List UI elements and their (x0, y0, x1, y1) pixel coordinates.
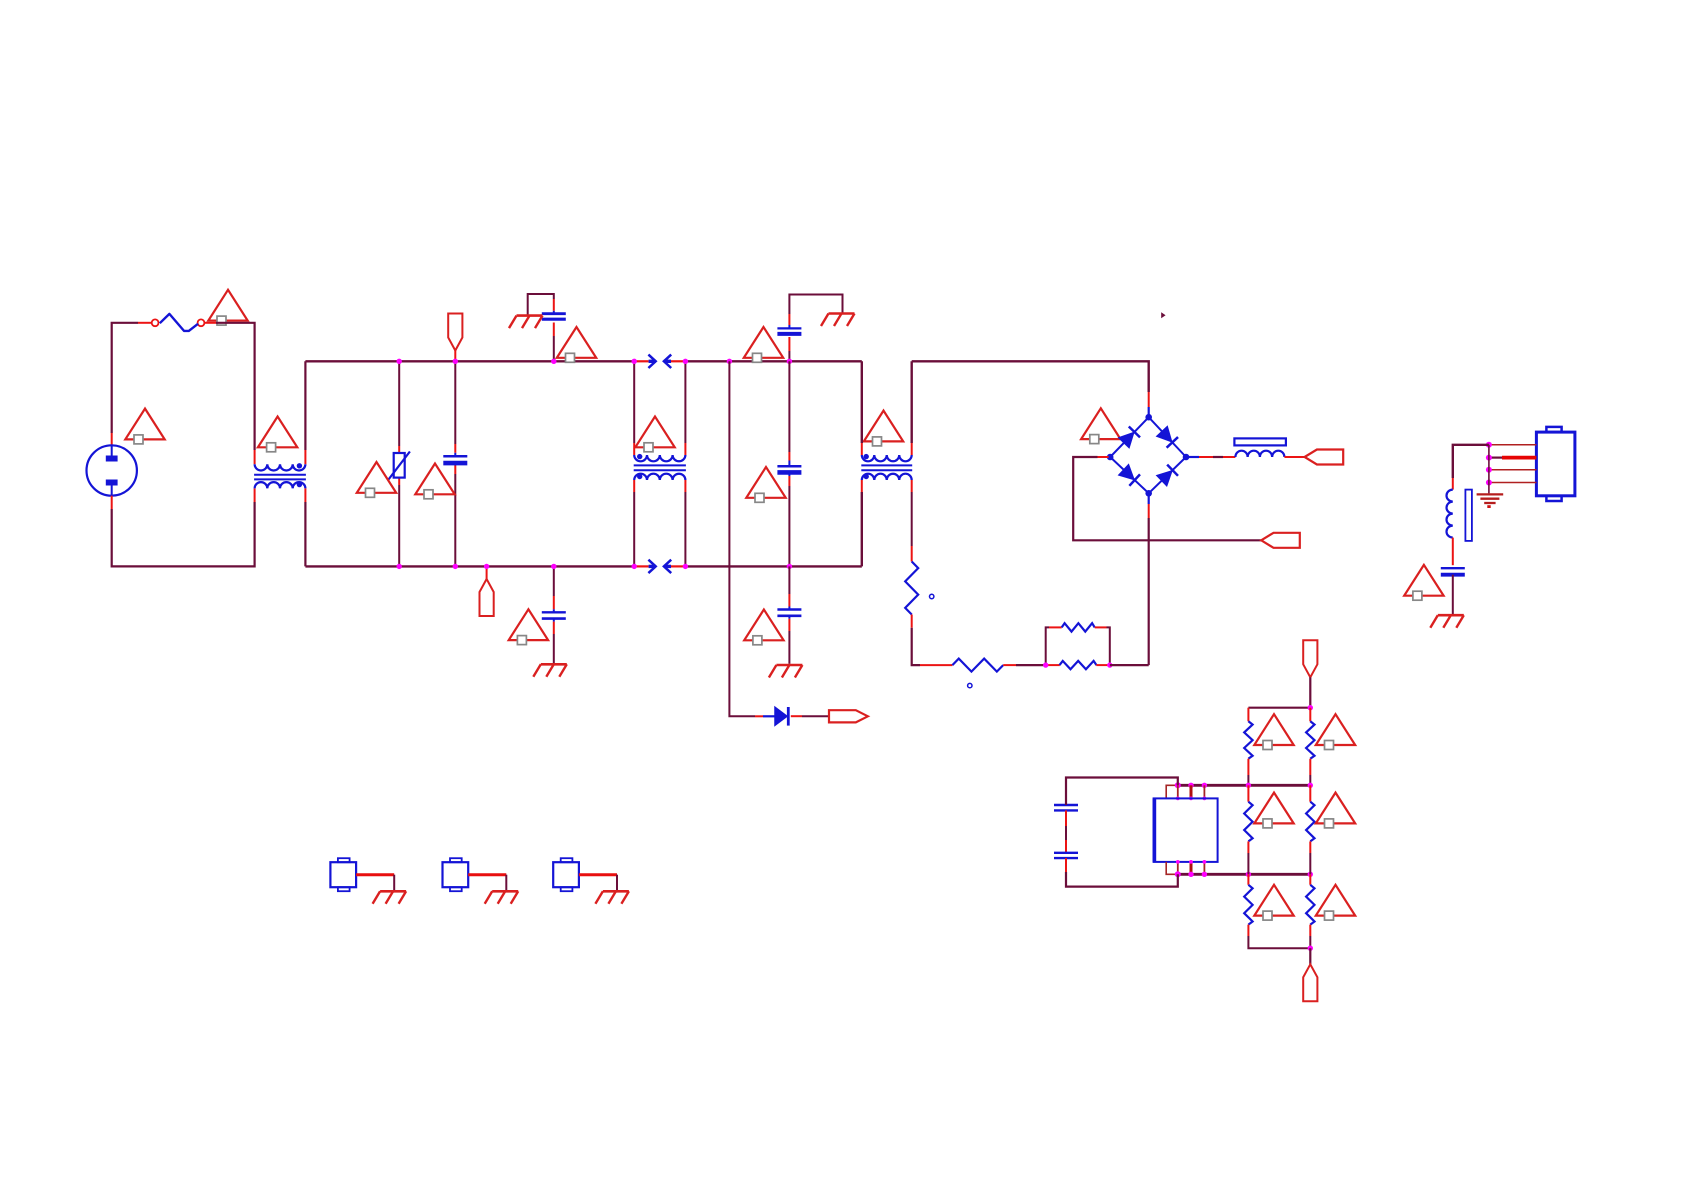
chassis ground G2 (821, 314, 855, 327)
wire L3 to capacitor C8 (1452, 538, 1454, 566)
T3 bottom-right lead (911, 480, 913, 562)
mounting hole MH2 (443, 858, 469, 891)
no-ERC marker R7 (1254, 793, 1293, 828)
port (bottle) top of divider (1303, 640, 1317, 690)
bridge vertex dots (1107, 414, 1189, 497)
no-ERC marker left of CY2 (744, 327, 783, 362)
MH1 pin to ground (356, 875, 394, 891)
fuse F1 (152, 314, 205, 331)
wire to bottom port (1309, 948, 1311, 964)
transformer T3 (861, 455, 912, 480)
junction bottom (1308, 946, 1313, 951)
earth ground G5 (1477, 494, 1504, 508)
cap loop top wire (1066, 778, 1178, 806)
MH2 pin to ground (468, 875, 506, 891)
resistor R6 (1306, 708, 1314, 786)
capacitor CY1 to chassis ground (top left) (528, 294, 566, 361)
resistor R10 (1306, 874, 1314, 948)
capacitor CY3 to ground (bottom of x=554) (542, 566, 566, 663)
capacitor C9 (upper left) (1054, 778, 1078, 811)
chassis ground G7 (373, 891, 407, 904)
wire L2 to port (1284, 456, 1304, 458)
no-ERC marker above T3 (864, 411, 903, 446)
bridge diode D3 (1156, 426, 1178, 448)
AC socket J1 (87, 445, 137, 495)
capacitor CY2 to chassis ground (top right) (777, 295, 842, 362)
no-ERC marker left of CY4 (744, 610, 783, 645)
IC U1 bottom pins (1178, 862, 1205, 874)
output top rail (912, 361, 1149, 417)
bridge diode D5 (1156, 465, 1178, 487)
top rail right segment (685, 360, 861, 362)
junction RV1 bottom (397, 564, 402, 569)
resistor R2 horizontal (920, 659, 1046, 672)
wire port to rail1 (1309, 690, 1311, 708)
no-ERC marker left of plug (125, 409, 164, 444)
top rail left segment (305, 360, 634, 362)
spark gap top (634, 355, 685, 368)
IC U1 pin entry dots top (1176, 797, 1206, 801)
T3 polarity dots (864, 454, 869, 479)
wire T1 to bottom rail (304, 488, 306, 566)
port P1 (bottle) above rail (448, 314, 462, 362)
no-ERC marker near C8 (1404, 565, 1443, 600)
capacitor C10 (lower left) (1054, 810, 1078, 872)
MH3 pin to ground (579, 875, 617, 891)
resistor R1 vertical (905, 562, 918, 615)
no-ERC marker R5 (1254, 714, 1293, 749)
R1 bottom lead (912, 615, 920, 666)
T3 top-left lead (861, 361, 863, 455)
varistor RV1 branch wire (398, 361, 400, 566)
resistor R5 (1244, 708, 1252, 786)
common-mode choke T1 (254, 464, 306, 488)
resistor R9 (1244, 874, 1310, 948)
bridge diode D4 (1118, 464, 1140, 486)
wire bridge right vertex to inductor (1186, 456, 1235, 458)
CN1 pin junction dots (1486, 442, 1492, 486)
connector CN1 body (1536, 427, 1575, 501)
CN1 pin 4 (1489, 482, 1537, 484)
resistor R8 (1306, 785, 1314, 874)
junction CY3 (551, 564, 556, 569)
wire bridge left vertex to port (1073, 457, 1261, 540)
port P2 (bottle) below rail (480, 566, 494, 616)
chassis ground G3 (533, 664, 567, 677)
capacitor CX1 branch (443, 361, 467, 566)
junction R3/R4 right (1107, 662, 1112, 667)
no-ERC marker R9 (1254, 885, 1293, 920)
CN1 pin 2 (1489, 457, 1537, 459)
no-ERC marker left of CX2 (746, 467, 785, 502)
no-ERC marker R8 (1316, 793, 1355, 828)
no-ERC marker left of CX1 (415, 464, 454, 499)
capacitor CX2 between rails (777, 361, 801, 566)
no-ERC marker above T1 (258, 417, 297, 452)
rail2 junction dots (1175, 782, 1313, 788)
stray cursor mark (1161, 312, 1165, 318)
divider rail 1 (1248, 707, 1310, 709)
capacitor CY4 to ground (bottom of x=789) (777, 566, 801, 663)
chassis ground G8 (485, 891, 519, 904)
bridge diode D2 (1118, 427, 1140, 449)
T3 bottom-left lead (861, 480, 863, 566)
no-ERC marker right of CY1 (557, 327, 596, 362)
cap loop bottom wire (1066, 872, 1178, 887)
port flag left (positive out) (1305, 450, 1344, 465)
no-ERC marker left of RV1 (357, 462, 396, 497)
T3 top-right lead (911, 361, 913, 455)
resistor R7 (1244, 785, 1252, 874)
wire bridge bottom to rail (1148, 493, 1150, 665)
crossover branch to diode (727, 359, 775, 717)
port (bottle) bottom of divider (1303, 964, 1317, 1001)
junction CX1 top (453, 359, 458, 364)
no-ERC marker left of CY3 (509, 609, 548, 644)
bridge rectifier BR1 edges (1110, 417, 1186, 493)
inductor L3 with ferrite bar (1447, 490, 1472, 541)
inductor L2 with shield bar (1234, 438, 1286, 457)
output bottom rail (1110, 664, 1149, 666)
small blue node marker 2 (968, 683, 972, 687)
junction T2 rail dots (632, 359, 689, 570)
common-mode choke T2 (634, 455, 686, 480)
rail2 left thin lead to pin1 (1166, 785, 1178, 798)
resistor R4 (parallel pair upper) (1046, 623, 1110, 665)
CN1 ground bus (1488, 445, 1490, 494)
T2 top-right lead (684, 361, 686, 455)
resistor R3 (parallel pair lower) (1046, 661, 1110, 669)
no-ERC marker above T2 (635, 417, 674, 452)
wire CN1 pin1 to inductor L3 (1453, 445, 1489, 490)
no-ERC marker near fuse (208, 290, 247, 325)
diode D1 (775, 707, 788, 726)
wire C8 to ground (1452, 575, 1454, 614)
divider rail 2 (1178, 784, 1311, 787)
wire T1 to top rail (304, 361, 306, 464)
varistor RV1 (389, 452, 410, 480)
no-ERC marker R6 (1316, 714, 1355, 749)
T2 bottom-left lead (633, 480, 635, 566)
junction RV1 top (397, 359, 402, 364)
junction rail1 (1308, 705, 1313, 710)
IC U1 top pins (1178, 785, 1205, 798)
no-ERC marker left of bridge (1081, 408, 1120, 443)
chassis ground G4 (769, 665, 803, 678)
IC U1 pin entry dots bottom (1176, 860, 1206, 864)
T2 polarity dots (637, 454, 642, 479)
bottom rail left segment (305, 565, 634, 567)
rail3 junction dots (1175, 871, 1313, 877)
junction R3/R4 left (1043, 662, 1048, 667)
small blue node marker 1 (930, 594, 934, 598)
chassis ground G6 (1430, 615, 1464, 628)
T1 polarity dots (297, 463, 302, 487)
wire plug bottom net (112, 488, 255, 566)
wire D1 to port (791, 715, 830, 717)
junction CX1 bottom (453, 564, 458, 569)
wire fuse to T1 primary (204, 323, 254, 464)
IC U1 body (1154, 798, 1218, 862)
junction CY1 (551, 359, 556, 364)
mounting hole MH1 (330, 858, 356, 891)
CN1 pin 3 (1489, 469, 1537, 471)
port flag left (negative out) (1261, 533, 1300, 548)
capacitor C8 (1441, 568, 1465, 575)
chassis ground G1 (509, 316, 543, 329)
mounting hole MH3 (553, 858, 579, 891)
spark gap bottom (634, 560, 685, 573)
bottom rail right segment (685, 565, 861, 567)
port flag right (D1 output) (829, 710, 868, 722)
divider rail 3 (1178, 873, 1311, 876)
junction CY2 (787, 359, 792, 364)
no-ERC marker R10 (1316, 885, 1355, 920)
rail3 left thin lead to pin1 (1166, 862, 1178, 874)
junction CX2 bottom (787, 564, 792, 569)
CN1 pin 1 (1489, 444, 1537, 446)
wire plug top to fuse (112, 323, 152, 446)
chassis ground G9 (595, 891, 629, 904)
T2 top-left lead (633, 361, 635, 455)
junction P2 (484, 564, 489, 569)
T2 bottom-right lead (684, 480, 686, 566)
